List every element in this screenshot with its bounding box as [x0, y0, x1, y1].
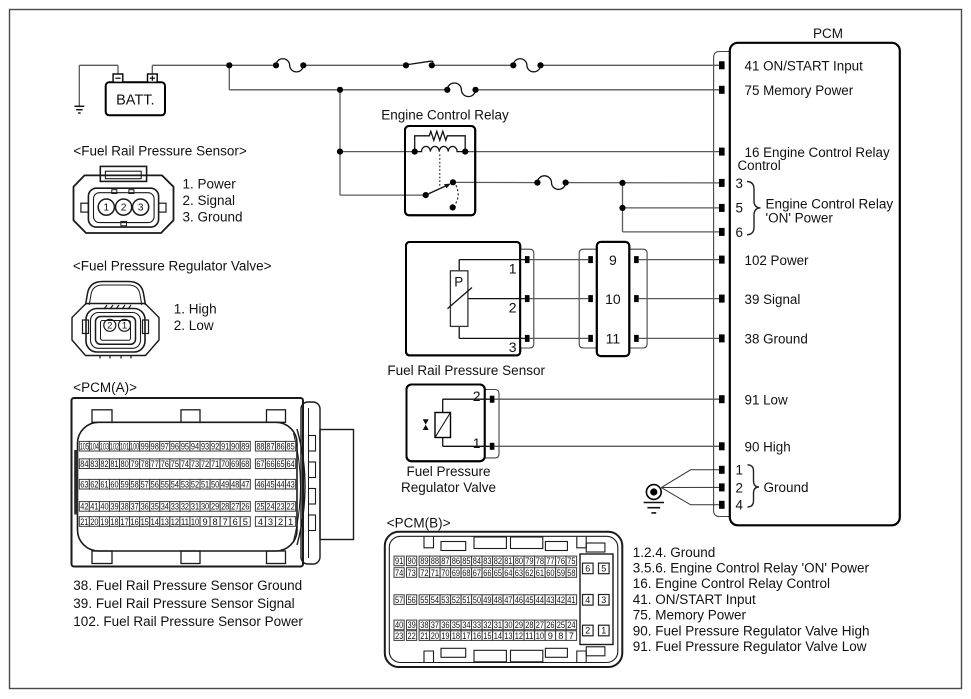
- svg-text:29: 29: [211, 502, 219, 512]
- svg-text:39: 39: [407, 620, 415, 630]
- svg-text:56: 56: [151, 480, 159, 490]
- svg-text:16: 16: [473, 631, 481, 641]
- svg-text:19: 19: [100, 517, 108, 527]
- svg-text:60: 60: [110, 480, 118, 490]
- svg-text:102. Fuel Rail Pressure Sensor: 102. Fuel Rail Pressure Sensor Power: [73, 614, 303, 629]
- svg-text:20: 20: [90, 517, 98, 527]
- svg-text:91: 91: [395, 556, 403, 566]
- svg-text:21: 21: [420, 631, 428, 641]
- svg-text:41 ON/START Input: 41 ON/START Input: [745, 59, 864, 74]
- svg-text:44: 44: [276, 480, 284, 490]
- svg-text:66: 66: [266, 459, 274, 469]
- svg-text:<PCM(B)>: <PCM(B)>: [387, 515, 451, 530]
- svg-text:2: 2: [585, 626, 590, 636]
- svg-text:93: 93: [201, 442, 209, 452]
- svg-text:<Fuel Rail Pressure Sensor>: <Fuel Rail Pressure Sensor>: [73, 144, 246, 159]
- svg-text:45: 45: [266, 480, 274, 490]
- svg-text:28: 28: [221, 502, 229, 512]
- svg-text:29: 29: [515, 620, 523, 630]
- svg-text:102 Power: 102 Power: [745, 253, 810, 268]
- svg-text:1: 1: [104, 203, 110, 214]
- svg-text:79: 79: [525, 556, 533, 566]
- svg-text:75. Memory Power: 75. Memory Power: [633, 608, 747, 623]
- svg-text:47: 47: [504, 595, 512, 605]
- svg-text:17: 17: [120, 517, 128, 527]
- svg-text:71: 71: [211, 459, 219, 469]
- svg-text:83: 83: [483, 556, 491, 566]
- svg-text:54: 54: [431, 595, 439, 605]
- svg-text:41: 41: [567, 595, 575, 605]
- svg-text:95: 95: [181, 442, 189, 452]
- svg-text:8: 8: [213, 517, 218, 527]
- svg-text:32: 32: [181, 502, 189, 512]
- svg-text:1: 1: [509, 261, 517, 277]
- svg-text:13: 13: [504, 631, 512, 641]
- svg-text:2: 2: [107, 321, 112, 332]
- svg-text:16. Engine Control Relay Contr: 16. Engine Control Relay Control: [633, 576, 830, 591]
- svg-text:36: 36: [141, 502, 149, 512]
- svg-text:12: 12: [171, 517, 179, 527]
- svg-text:36: 36: [441, 620, 449, 630]
- svg-text:2: 2: [121, 203, 127, 214]
- svg-text:3.5.6. Engine Control Relay 'O: 3.5.6. Engine Control Relay 'ON' Power: [633, 561, 870, 576]
- svg-text:76: 76: [557, 556, 565, 566]
- svg-text:105: 105: [80, 442, 89, 452]
- svg-text:2: 2: [473, 388, 481, 404]
- svg-text:85: 85: [287, 442, 295, 452]
- svg-text:22: 22: [407, 631, 415, 641]
- svg-text:11: 11: [181, 517, 189, 527]
- svg-text:38 Ground: 38 Ground: [745, 332, 808, 347]
- svg-text:5: 5: [601, 564, 606, 574]
- svg-text:7: 7: [569, 631, 574, 641]
- svg-text:67: 67: [256, 459, 264, 469]
- svg-text:53: 53: [181, 480, 189, 490]
- svg-text:31: 31: [494, 620, 502, 630]
- svg-text:66: 66: [483, 568, 491, 578]
- svg-text:Engine Control Relay: Engine Control Relay: [381, 108, 509, 123]
- svg-text:72: 72: [420, 568, 428, 578]
- svg-text:44: 44: [536, 595, 544, 605]
- svg-text:90: 90: [407, 556, 415, 566]
- svg-text:2: 2: [509, 300, 517, 316]
- svg-text:80: 80: [515, 556, 523, 566]
- svg-text:27: 27: [231, 502, 239, 512]
- svg-text:PCM: PCM: [813, 26, 843, 41]
- svg-text:49: 49: [483, 595, 491, 605]
- svg-text:40: 40: [395, 620, 403, 630]
- svg-text:91 Low: 91 Low: [745, 392, 789, 407]
- svg-text:23: 23: [395, 631, 403, 641]
- svg-text:59: 59: [120, 480, 128, 490]
- svg-text:45: 45: [525, 595, 533, 605]
- svg-text:15: 15: [141, 517, 149, 527]
- svg-text:88: 88: [256, 442, 264, 452]
- svg-text:26: 26: [241, 502, 249, 512]
- svg-text:74: 74: [181, 459, 189, 469]
- svg-text:46: 46: [515, 595, 523, 605]
- svg-text:102: 102: [110, 442, 119, 452]
- svg-text:69: 69: [231, 459, 239, 469]
- svg-text:38. Fuel Rail Pressure Sensor: 38. Fuel Rail Pressure Sensor Ground: [73, 578, 302, 593]
- svg-text:4: 4: [736, 498, 744, 513]
- svg-text:39. Fuel Rail Pressure Sensor: 39. Fuel Rail Pressure Sensor Signal: [73, 596, 294, 611]
- svg-text:26: 26: [546, 620, 554, 630]
- svg-text:71: 71: [431, 568, 439, 578]
- svg-text:Engine Control Relay: Engine Control Relay: [766, 196, 894, 211]
- svg-text:<PCM(A)>: <PCM(A)>: [73, 380, 137, 395]
- svg-text:41: 41: [90, 502, 98, 512]
- svg-text:84: 84: [80, 459, 88, 469]
- svg-text:33: 33: [473, 620, 481, 630]
- svg-text:90 High: 90 High: [745, 440, 791, 455]
- svg-text:49: 49: [221, 480, 229, 490]
- svg-text:100: 100: [130, 442, 139, 452]
- svg-text:13: 13: [161, 517, 169, 527]
- svg-text:1: 1: [601, 626, 606, 636]
- svg-text:20: 20: [431, 631, 439, 641]
- svg-text:96: 96: [171, 442, 179, 452]
- svg-text:90. Fuel Pressure Regulator Va: 90. Fuel Pressure Regulator Valve High: [633, 623, 870, 638]
- svg-text:73: 73: [407, 568, 415, 578]
- svg-text:1.2.4. Ground: 1.2.4. Ground: [633, 545, 716, 560]
- svg-text:35: 35: [151, 502, 159, 512]
- svg-text:6: 6: [233, 517, 238, 527]
- svg-text:62: 62: [90, 480, 98, 490]
- svg-text:54: 54: [171, 480, 179, 490]
- svg-text:24: 24: [266, 502, 274, 512]
- svg-text:3: 3: [138, 203, 144, 214]
- svg-text:<Fuel Pressure Regulator Valve: <Fuel Pressure Regulator Valve>: [73, 259, 272, 274]
- svg-text:1: 1: [122, 321, 127, 332]
- svg-text:82: 82: [494, 556, 502, 566]
- svg-text:38: 38: [120, 502, 128, 512]
- svg-text:3: 3: [509, 339, 517, 355]
- svg-text:89: 89: [241, 442, 249, 452]
- svg-text:64: 64: [287, 459, 295, 469]
- svg-text:6: 6: [585, 564, 590, 574]
- svg-text:16: 16: [131, 517, 139, 527]
- svg-text:56: 56: [407, 595, 415, 605]
- svg-text:78: 78: [536, 556, 544, 566]
- svg-text:55: 55: [161, 480, 169, 490]
- svg-text:Regulator Valve: Regulator Valve: [401, 480, 496, 495]
- svg-text:70: 70: [441, 568, 449, 578]
- svg-text:70: 70: [221, 459, 229, 469]
- svg-text:61: 61: [100, 480, 108, 490]
- svg-text:48: 48: [494, 595, 502, 605]
- svg-text:37: 37: [131, 502, 139, 512]
- svg-text:25: 25: [256, 502, 264, 512]
- svg-text:39: 39: [110, 502, 118, 512]
- svg-text:11: 11: [525, 631, 533, 641]
- svg-text:3: 3: [268, 517, 273, 527]
- svg-text:68: 68: [462, 568, 470, 578]
- svg-text:21: 21: [80, 517, 88, 527]
- svg-text:'ON' Power: 'ON' Power: [766, 211, 834, 226]
- svg-text:48: 48: [231, 480, 239, 490]
- svg-text:9: 9: [202, 517, 207, 527]
- svg-text:39 Signal: 39 Signal: [745, 292, 801, 307]
- svg-text:104: 104: [90, 442, 99, 452]
- svg-text:63: 63: [80, 480, 88, 490]
- svg-text:18: 18: [110, 517, 118, 527]
- svg-text:81: 81: [110, 459, 118, 469]
- svg-text:84: 84: [473, 556, 481, 566]
- svg-text:17: 17: [462, 631, 470, 641]
- svg-text:1. Power: 1. Power: [183, 177, 237, 192]
- svg-text:77: 77: [546, 556, 554, 566]
- svg-text:5: 5: [243, 517, 248, 527]
- svg-text:11: 11: [606, 331, 621, 347]
- svg-text:63: 63: [515, 568, 523, 578]
- svg-text:81: 81: [504, 556, 512, 566]
- svg-text:91: 91: [221, 442, 229, 452]
- svg-text:57: 57: [141, 480, 149, 490]
- svg-text:34: 34: [161, 502, 169, 512]
- svg-text:34: 34: [462, 620, 470, 630]
- svg-text:7: 7: [223, 517, 228, 527]
- svg-text:51: 51: [462, 595, 470, 605]
- svg-text:77: 77: [151, 459, 159, 469]
- svg-text:74: 74: [395, 568, 403, 578]
- svg-text:91. Fuel Pressure Regulator Va: 91. Fuel Pressure Regulator Valve Low: [633, 639, 867, 654]
- svg-text:43: 43: [287, 480, 295, 490]
- svg-text:43: 43: [546, 595, 554, 605]
- svg-text:76: 76: [161, 459, 169, 469]
- svg-text:51: 51: [201, 480, 209, 490]
- svg-text:87: 87: [441, 556, 449, 566]
- svg-text:30: 30: [504, 620, 512, 630]
- svg-text:86: 86: [452, 556, 460, 566]
- svg-text:89: 89: [420, 556, 428, 566]
- svg-text:99: 99: [141, 442, 149, 452]
- svg-text:83: 83: [90, 459, 98, 469]
- svg-text:68: 68: [241, 459, 249, 469]
- svg-text:15: 15: [483, 631, 491, 641]
- svg-text:50: 50: [473, 595, 481, 605]
- svg-text:92: 92: [211, 442, 219, 452]
- svg-text:Fuel Rail Pressure Sensor: Fuel Rail Pressure Sensor: [387, 363, 545, 378]
- svg-text:53: 53: [441, 595, 449, 605]
- svg-text:52: 52: [191, 480, 199, 490]
- svg-text:41. ON/START Input: 41. ON/START Input: [633, 592, 756, 607]
- svg-text:4: 4: [258, 517, 263, 527]
- svg-text:3. Ground: 3. Ground: [183, 209, 243, 224]
- svg-text:25: 25: [557, 620, 565, 630]
- svg-text:35: 35: [452, 620, 460, 630]
- svg-text:82: 82: [100, 459, 108, 469]
- svg-text:64: 64: [504, 568, 512, 578]
- svg-text:2. Signal: 2. Signal: [183, 193, 236, 208]
- svg-text:14: 14: [494, 631, 502, 641]
- svg-text:75: 75: [171, 459, 179, 469]
- svg-text:37: 37: [431, 620, 439, 630]
- svg-text:50: 50: [211, 480, 219, 490]
- svg-text:42: 42: [80, 502, 88, 512]
- svg-text:18: 18: [452, 631, 460, 641]
- svg-text:67: 67: [473, 568, 481, 578]
- svg-text:47: 47: [241, 480, 249, 490]
- svg-text:23: 23: [276, 502, 284, 512]
- svg-text:65: 65: [276, 459, 284, 469]
- svg-text:75: 75: [567, 556, 575, 566]
- svg-text:9: 9: [609, 252, 617, 268]
- svg-text:103: 103: [100, 442, 109, 452]
- svg-text:75 Memory Power: 75 Memory Power: [745, 83, 854, 98]
- svg-text:12: 12: [515, 631, 523, 641]
- svg-text:1: 1: [288, 517, 293, 527]
- svg-text:98: 98: [151, 442, 159, 452]
- svg-text:86: 86: [276, 442, 284, 452]
- svg-text:65: 65: [494, 568, 502, 578]
- svg-text:58: 58: [567, 568, 575, 578]
- svg-text:79: 79: [131, 459, 139, 469]
- svg-text:19: 19: [441, 631, 449, 641]
- svg-text:P: P: [454, 275, 463, 290]
- svg-text:73: 73: [191, 459, 199, 469]
- svg-text:32: 32: [483, 620, 491, 630]
- svg-text:6: 6: [736, 225, 743, 240]
- svg-text:24: 24: [567, 620, 575, 630]
- svg-text:80: 80: [120, 459, 128, 469]
- svg-text:22: 22: [287, 502, 295, 512]
- svg-text:90: 90: [231, 442, 239, 452]
- svg-text:3: 3: [601, 595, 606, 605]
- svg-text:69: 69: [452, 568, 460, 578]
- svg-text:62: 62: [525, 568, 533, 578]
- svg-text:78: 78: [141, 459, 149, 469]
- svg-text:72: 72: [201, 459, 209, 469]
- svg-text:88: 88: [431, 556, 439, 566]
- svg-text:33: 33: [171, 502, 179, 512]
- svg-text:97: 97: [161, 442, 169, 452]
- svg-text:42: 42: [557, 595, 565, 605]
- svg-text:4: 4: [585, 595, 590, 605]
- svg-text:38: 38: [420, 620, 428, 630]
- svg-text:2: 2: [278, 517, 283, 527]
- svg-text:52: 52: [452, 595, 460, 605]
- svg-text:40: 40: [100, 502, 108, 512]
- svg-text:1: 1: [473, 435, 481, 451]
- svg-text:30: 30: [201, 502, 209, 512]
- svg-text:BATT.: BATT.: [116, 92, 154, 108]
- svg-text:9: 9: [548, 631, 553, 641]
- svg-text:31: 31: [191, 502, 199, 512]
- svg-text:10: 10: [605, 291, 621, 307]
- svg-text:Ground: Ground: [764, 480, 809, 495]
- svg-text:101: 101: [120, 442, 129, 452]
- svg-text:87: 87: [266, 442, 274, 452]
- svg-text:85: 85: [462, 556, 470, 566]
- svg-text:10: 10: [536, 631, 544, 641]
- svg-text:Fuel Pressure: Fuel Pressure: [406, 464, 490, 479]
- svg-text:28: 28: [525, 620, 533, 630]
- svg-text:58: 58: [131, 480, 139, 490]
- svg-text:2: 2: [736, 480, 743, 495]
- svg-text:8: 8: [558, 631, 563, 641]
- svg-text:46: 46: [256, 480, 264, 490]
- svg-text:14: 14: [151, 517, 159, 527]
- svg-text:10: 10: [191, 517, 199, 527]
- svg-text:55: 55: [420, 595, 428, 605]
- svg-text:1. High: 1. High: [174, 301, 217, 316]
- svg-text:59: 59: [557, 568, 565, 578]
- svg-text:27: 27: [536, 620, 544, 630]
- svg-text:3: 3: [736, 176, 743, 191]
- svg-text:2. Low: 2. Low: [174, 318, 214, 333]
- svg-text:60: 60: [546, 568, 554, 578]
- svg-text:1: 1: [736, 463, 743, 478]
- svg-text:5: 5: [736, 201, 743, 216]
- svg-text:Control: Control: [738, 158, 781, 173]
- svg-text:94: 94: [191, 442, 199, 452]
- svg-text:61: 61: [536, 568, 544, 578]
- svg-text:57: 57: [395, 595, 403, 605]
